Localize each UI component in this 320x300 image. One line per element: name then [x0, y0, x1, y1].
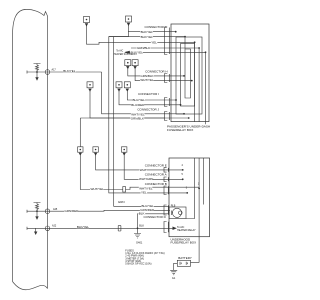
relay circle [172, 208, 181, 217]
label BLK bottom row [77, 225, 90, 229]
label BLU/YEL relay row [141, 204, 154, 208]
svg-text:CONNECTOR D: CONNECTOR D [144, 215, 167, 219]
row J1 inside stub [183, 113, 185, 115]
wire WHT row into box, dot [182, 169, 184, 171]
svg-text:GRN/BLK: GRN/BLK [137, 46, 150, 50]
svg-text:CONNECTOR J: CONNECTOR J [137, 108, 159, 112]
svg-text:A22: A22 [52, 225, 57, 228]
junction dot splice 1 [36, 71, 38, 73]
svg-text:CONNECTOR I: CONNECTOR I [138, 92, 159, 96]
svg-text:BLK/YEL: BLK/YEL [141, 30, 154, 34]
ground G1 [170, 270, 177, 275]
harness ghost bottom wave [13, 282, 48, 290]
internal feed row3 down to relay [186, 42, 195, 218]
bracket connector D [164, 222, 168, 233]
wire BLK/YEL splice row y=72 [27, 71, 102, 74]
wire from T1b down-left-down to lower YEL row [109, 25, 187, 193]
arrow to A/C heater (left pointing) [125, 51, 130, 53]
wire GRN/BLK row4 stub [131, 47, 199, 49]
svg-text:HEATER SUB RELAY: HEATER SUB RELAY [114, 53, 138, 56]
junction dot splice 2 [36, 210, 38, 212]
svg-text:BLK/YEL: BLK/YEL [63, 69, 76, 73]
connector T6 [124, 82, 130, 91]
resistor (noise suppressor) at splice 1 [34, 64, 41, 73]
wire YEL row2 into box, dot [186, 192, 188, 194]
svg-text:YEL: YEL [141, 191, 147, 195]
svg-text:BLU/RED: BLU/RED [131, 103, 145, 107]
wire from T1a to YEL row (jog) [87, 25, 195, 44]
wire from T3 to WHT/YEL row H2 [135, 68, 192, 81]
junction dot BLK branch [137, 227, 139, 229]
svg-text:G401: G401 [136, 241, 143, 245]
internal feed row4 down to battery [198, 48, 200, 263]
svg-text:WHT/GRN: WHT/GRN [139, 177, 153, 181]
label BLK/YEL row1 [140, 30, 153, 34]
svg-text:5 BACK UP ACC (10A): 5 BACK UP ACC (10A) [125, 262, 151, 266]
wire BLK/YEL down to connector J row1 [102, 72, 184, 114]
harness ghost outline (left strip) [13, 9, 48, 281]
wire BLK/YEL row2 through T1b foot [109, 36, 185, 38]
wire BLU/YEL branch down to relay row [114, 37, 170, 207]
arrow down below splice 2 [36, 211, 38, 219]
label BLK/YEL row2 [140, 35, 153, 39]
bracket connector B [164, 186, 168, 195]
svg-text:GRN/BLK: GRN/BLK [131, 117, 144, 121]
label GRN/BLK row H1 [140, 74, 154, 78]
label BLU/RED row I2 [131, 103, 145, 107]
wire from T6 to BLU/RED row I2 [127, 90, 176, 100]
svg-text:BLK/YEL: BLK/YEL [77, 225, 90, 229]
row J2 inside stub [188, 117, 190, 119]
upper box inner rect U2 [176, 37, 202, 114]
wire WHT/YEL row to battery feed [198, 188, 200, 190]
label WHT/YEL row J1 [131, 112, 145, 116]
svg-text:CONNECTOR C: CONNECTOR C [145, 25, 168, 29]
svg-text:RLB: RLB [171, 204, 176, 207]
label GRN/RED relay row [140, 208, 155, 212]
inline connector on bottom row [118, 226, 121, 231]
svg-text:GRN: GRN [118, 200, 125, 204]
wire bottom row y=228.3 [27, 227, 170, 230]
splice ring 2 [45, 209, 50, 214]
svg-text:BLK: BLK [139, 224, 144, 227]
lower box underhood fuse/relay box [169, 158, 210, 237]
wire BLK branch up into relay [138, 214, 170, 229]
connector T1a (square, top) [84, 17, 90, 26]
svg-text:HEATER RELAY: HEATER RELAY [177, 229, 196, 232]
connector T5 [116, 82, 122, 91]
wire GRN/RED row with jog [27, 210, 170, 213]
svg-text:BLK/YEL: BLK/YEL [141, 35, 154, 39]
connector S3 [122, 147, 127, 155]
wire battery to ground [174, 263, 178, 270]
wire arrow row BLK/YEL exits left [130, 51, 206, 53]
battery symbol [177, 260, 190, 266]
svg-text:FUSE/RELAY BOX: FUSE/RELAY BOX [171, 241, 197, 245]
svg-text:BLU/YEL: BLU/YEL [133, 98, 146, 102]
svg-text:GRN/RED: GRN/RED [65, 209, 80, 213]
connector S1 [78, 147, 83, 155]
label BLK/YEL arrow row [130, 50, 143, 54]
row H1 inside stub [183, 75, 185, 77]
bracket connector A [164, 177, 168, 182]
ground G401 [134, 228, 141, 238]
svg-text:CONNECTOR E: CONNECTOR E [145, 163, 167, 167]
splice ring 1 [45, 70, 50, 75]
wire GRN/BLK row J2 from x=80.3 down to S1 [80, 118, 164, 147]
harness ghost right edge [47, 16, 49, 289]
wire from T2 to GRN/BLK row H1 [128, 68, 184, 76]
wire from S3 to WHT/GRN row [124, 154, 183, 179]
label GRN/RED splice wire [64, 209, 79, 213]
resistor at splice 2 [34, 203, 41, 212]
bracket connector E [164, 168, 168, 173]
internal feed row5 down to relay right [204, 52, 206, 204]
svg-text:CONNECTOR A: CONNECTOR A [145, 173, 167, 177]
bracket connector C [165, 27, 170, 55]
label BLK/YEL splice wire [63, 69, 76, 73]
label YEL row3 [151, 40, 158, 44]
svg-text:WHT/YEL: WHT/YEL [140, 78, 154, 82]
row I1 inside stub [175, 99, 177, 101]
svg-text:A25: A25 [53, 208, 58, 211]
connector S2 [93, 147, 98, 155]
bracket connector J [165, 112, 170, 121]
label BLU/YEL row I1 [132, 98, 145, 102]
svg-text:WHT: WHT [140, 168, 147, 172]
arrow to A/C heater relay (right pointing) [170, 227, 177, 230]
label WHT/YEL row B1 [139, 186, 153, 190]
splice ring 3 [45, 226, 50, 231]
svg-text:WHT/YEL: WHT/YEL [91, 187, 105, 191]
label YEL row B2 [141, 191, 148, 195]
connector T2 [125, 60, 131, 69]
label GRN/BLK row4 [137, 46, 151, 50]
legend fuses [125, 248, 164, 265]
label WHT row [139, 168, 146, 172]
wire from T4 to BLU/YEL row I1 [90, 90, 189, 118]
wire BLK/YEL row1 stub [128, 31, 176, 33]
relay box in underhood box [169, 207, 186, 219]
bracket connector H [165, 74, 170, 83]
connector T1b (square, top) [126, 16, 132, 25]
svg-text:A17: A17 [52, 69, 57, 72]
svg-text:YEL: YEL [151, 40, 157, 44]
battery wire down to battery [191, 262, 200, 264]
upper box inner rect U3 [181, 44, 195, 107]
junction dots in upper box [175, 31, 177, 33]
svg-text:G1: G1 [172, 276, 176, 280]
wire from S1 down to WHT/YEL lower row with jog [80, 154, 199, 189]
connector T3 [132, 60, 138, 69]
upper box inner rect U4 [185, 37, 191, 98]
wire from S2 to WHT row [96, 154, 183, 170]
row I2 inside stub [180, 104, 182, 106]
upper box U1 passenger's under-dash fuse/relay box [171, 24, 209, 122]
connector T4 [87, 82, 93, 91]
label GRN/BLK row J2 [130, 117, 144, 121]
inline connector on WHT/YEL lower row [123, 187, 126, 192]
row H2 inside stub [191, 80, 193, 82]
bracket connector I [165, 98, 170, 107]
svg-text:BATTERY: BATTERY [178, 256, 192, 260]
arrow down below splice 1 [36, 72, 38, 80]
label WHT/GRN row [139, 177, 154, 181]
wire from T5 down to BLU/YEL relay row [119, 90, 181, 105]
label WHT/YEL lower left [90, 187, 104, 191]
arrow down below splice 3 [35, 228, 37, 234]
wire WHT/GRN row into box, dot [182, 178, 184, 180]
svg-text:FUSE/RELAY BOX: FUSE/RELAY BOX [167, 128, 193, 132]
bracket relay rows [164, 205, 168, 215]
label WHT/YEL row H2 [140, 78, 154, 82]
label BLK relay row [138, 212, 145, 216]
